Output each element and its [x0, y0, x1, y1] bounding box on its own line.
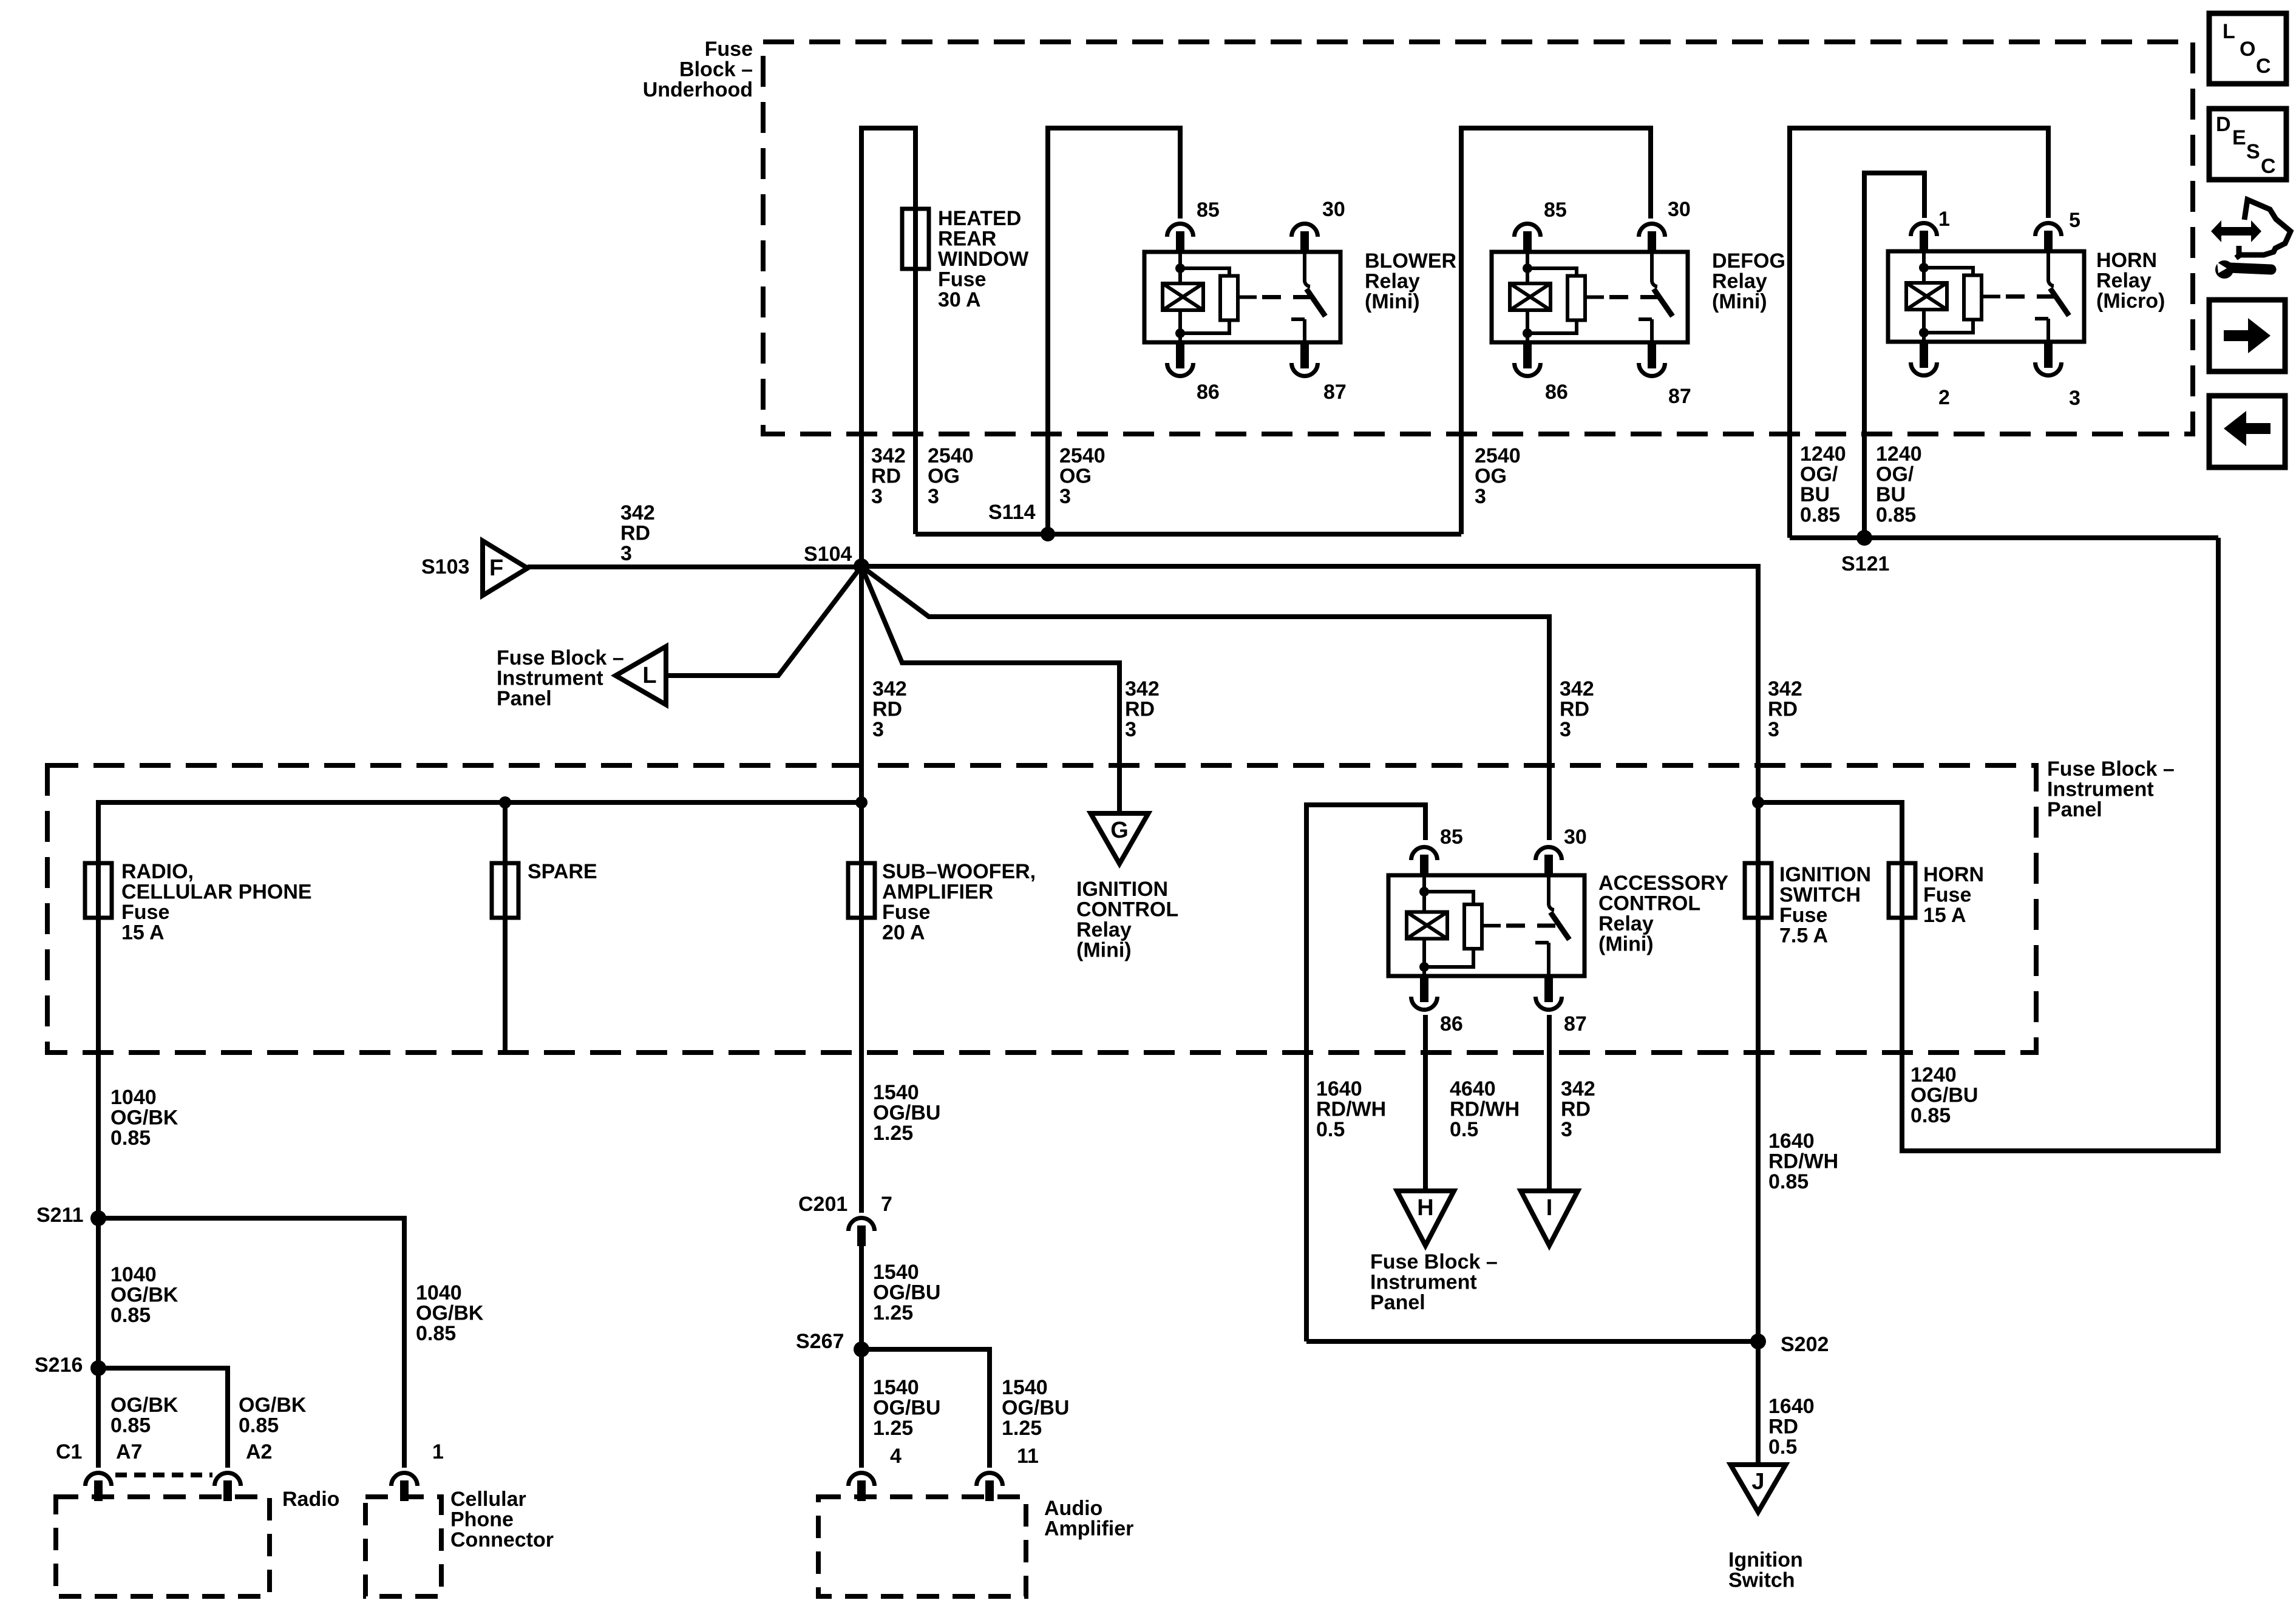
- svg-text:15 A: 15 A: [1923, 904, 1966, 927]
- wire: 1240 OG/BU from HORN fuse to S121: [1902, 538, 2218, 1151]
- connector clip A7: [86, 1473, 112, 1486]
- svg-text:RD: RD: [620, 522, 650, 545]
- svg-text:Relay: Relay: [1712, 270, 1767, 293]
- fuse: SPARE: [492, 862, 518, 919]
- connector triangle G: [1091, 813, 1149, 864]
- svg-text:S216: S216: [35, 1354, 83, 1377]
- dashed box: Cellular Phone Connector: [365, 1497, 441, 1596]
- svg-text:S103: S103: [421, 555, 469, 578]
- svg-text:BU: BU: [1876, 483, 1906, 506]
- svg-text:Relay: Relay: [1076, 918, 1132, 941]
- svg-text:3: 3: [1125, 718, 1136, 741]
- svg-text:1640: 1640: [1768, 1130, 1815, 1153]
- dashed box: Fuse Block - Underhood: [763, 42, 2193, 434]
- svg-text:86: 86: [1197, 381, 1220, 404]
- dashed box: Radio: [56, 1497, 270, 1596]
- svg-text:Relay: Relay: [1365, 270, 1420, 293]
- svg-text:0.85: 0.85: [239, 1414, 279, 1437]
- fuse: SUB-WOOFER AMPLIFIER 20 A: [848, 862, 875, 919]
- svg-text:Fuse: Fuse: [938, 268, 986, 291]
- relay: BLOWER Relay (Mini): [1144, 252, 1340, 342]
- connector clip 1 (cellular): [392, 1473, 418, 1486]
- svg-text:85: 85: [1197, 198, 1220, 222]
- wire: S104 diagonal to connector L (Fuse Block - Instrument Panel): [666, 566, 861, 676]
- svg-text:Radio: Radio: [282, 1488, 339, 1511]
- icon box arrow right: [2209, 300, 2285, 371]
- svg-text:A2: A2: [246, 1440, 272, 1463]
- svg-text:0.5: 0.5: [1316, 1118, 1345, 1141]
- connector clip A2: [215, 1473, 241, 1486]
- svg-text:1640: 1640: [1316, 1077, 1362, 1100]
- wire: S216 branch to radio pin A2: [98, 1368, 228, 1468]
- svg-text:Audio: Audio: [1044, 1497, 1102, 1520]
- svg-text:HORN: HORN: [1923, 863, 1984, 886]
- svg-text:Fuse: Fuse: [1779, 904, 1827, 927]
- fuse: IGNITION SWITCH 7.5 A: [1745, 862, 1771, 919]
- dashed link C1 between A7 and A2: [115, 1473, 212, 1477]
- svg-text:RD: RD: [872, 698, 902, 721]
- svg-text:1: 1: [1938, 208, 1950, 231]
- connector clip 4: [849, 1473, 875, 1486]
- svg-text:15 A: 15 A: [121, 921, 165, 944]
- svg-text:BU: BU: [1800, 483, 1830, 506]
- wire: 1240 OG/BU riser to HORN relay pin 1: [1864, 173, 1924, 538]
- wire: S202 splice line to acc-85 branch: [1306, 1339, 1758, 1344]
- relay: DEFOG Relay (Mini): [1492, 252, 1688, 342]
- svg-text:Panel: Panel: [497, 687, 552, 710]
- wire: 1540 OG/BU from SUB-WOOFER fuse to C201: [859, 918, 864, 1213]
- svg-text:DEFOG: DEFOG: [1712, 249, 1785, 273]
- svg-text:OG/: OG/: [1800, 463, 1838, 486]
- svg-text:Fuse: Fuse: [121, 901, 169, 924]
- svg-text:RD: RD: [1560, 698, 1589, 721]
- svg-text:OG: OG: [1059, 465, 1092, 488]
- svg-text:RD: RD: [1768, 698, 1798, 721]
- svg-text:3: 3: [1560, 718, 1571, 741]
- svg-text:1040: 1040: [110, 1086, 157, 1109]
- svg-text:RD/WH: RD/WH: [1768, 1150, 1838, 1173]
- wire: S121 splice line: [1790, 535, 2218, 540]
- svg-text:3: 3: [620, 542, 632, 565]
- svg-text:0.85: 0.85: [1911, 1104, 1951, 1127]
- connector clip 11: [977, 1473, 1003, 1486]
- svg-text:342: 342: [620, 501, 655, 524]
- svg-text:RADIO,: RADIO,: [121, 860, 194, 883]
- svg-text:0.85: 0.85: [1876, 504, 1916, 527]
- wire: ACCESSORY relay 86 to H: [1423, 1015, 1428, 1191]
- svg-text:Relay: Relay: [1598, 912, 1654, 935]
- wire: S211 to S216: [96, 1218, 101, 1368]
- svg-text:7: 7: [881, 1193, 892, 1216]
- svg-text:Ignition: Ignition: [1728, 1548, 1803, 1571]
- wire: S104 diagonal 342 RD to ACCESSORY CONTROL relay pin 30: [861, 566, 1549, 840]
- wire: SPARE fuse drop: [503, 802, 508, 863]
- dashed box: Audio Amplifier: [818, 1497, 1026, 1596]
- node: bus junction at SPARE fuse: [499, 796, 511, 808]
- svg-text:I: I: [1546, 1195, 1553, 1221]
- svg-text:C1: C1: [56, 1440, 82, 1463]
- svg-text:Panel: Panel: [2047, 798, 2102, 821]
- svg-text:0.85: 0.85: [1800, 504, 1840, 527]
- svg-text:5: 5: [2069, 209, 2080, 232]
- svg-text:1.25: 1.25: [873, 1122, 913, 1145]
- svg-text:RD: RD: [1561, 1098, 1591, 1121]
- svg-text:Fuse: Fuse: [1923, 884, 1971, 907]
- svg-text:1240: 1240: [1800, 442, 1846, 466]
- svg-text:20 A: 20 A: [882, 921, 925, 944]
- icon box DESC: [2209, 109, 2286, 180]
- wire: SPARE fuse lower stub: [503, 918, 508, 1053]
- svg-text:IGNITION: IGNITION: [1779, 863, 1871, 886]
- svg-text:1540: 1540: [873, 1081, 919, 1104]
- svg-text:3: 3: [1561, 1118, 1572, 1141]
- svg-text:(Mini): (Mini): [1076, 939, 1132, 962]
- HORN relay pin clips: [1911, 223, 1937, 237]
- svg-text:1.25: 1.25: [873, 1417, 913, 1440]
- svg-text:87: 87: [1323, 381, 1347, 404]
- connector triangle I: [1521, 1191, 1578, 1246]
- svg-text:342: 342: [871, 444, 906, 467]
- node S267: [854, 1341, 869, 1357]
- svg-text:WINDOW: WINDOW: [938, 248, 1029, 271]
- ACCESSORY CONTROL relay pin clips: [1411, 847, 1438, 861]
- wire: 342 RD feed from S104 up through fuse block to HEATED REAR WINDOW fuse: [861, 128, 915, 566]
- svg-text:OG/BK: OG/BK: [239, 1394, 307, 1417]
- svg-text:Phone: Phone: [450, 1508, 514, 1531]
- connector triangle L: [616, 646, 666, 705]
- svg-text:(Mini): (Mini): [1712, 290, 1767, 313]
- svg-text:1040: 1040: [110, 1263, 157, 1286]
- svg-text:S114: S114: [988, 501, 1036, 524]
- svg-text:342: 342: [1561, 1077, 1595, 1100]
- svg-text:Instrument: Instrument: [1370, 1271, 1477, 1294]
- svg-text:87: 87: [1564, 1012, 1587, 1036]
- svg-text:1.25: 1.25: [1002, 1417, 1042, 1440]
- svg-text:3: 3: [1475, 485, 1486, 508]
- svg-text:30 A: 30 A: [938, 288, 981, 311]
- wire: S104 right ray 342 RD to IGNITION SWITCH fuse: [861, 566, 1758, 863]
- svg-text:Fuse Block –: Fuse Block –: [497, 646, 624, 670]
- svg-text:342: 342: [872, 677, 907, 700]
- svg-text:85: 85: [1440, 825, 1463, 849]
- wire: IP fuse block bus to RADIO fuse: [98, 802, 861, 863]
- svg-text:CONTROL: CONTROL: [1598, 892, 1700, 915]
- svg-text:1040: 1040: [416, 1281, 462, 1304]
- relay: HORN Relay (Micro): [1888, 251, 2084, 342]
- svg-text:OG: OG: [928, 465, 960, 488]
- svg-text:85: 85: [1544, 198, 1567, 222]
- dashed box: Fuse Block - Instrument Panel: [47, 765, 2036, 1053]
- wire: 342 RD from connector F to S104: [528, 564, 861, 569]
- svg-text:S104: S104: [804, 543, 852, 566]
- svg-text:(Mini): (Mini): [1365, 290, 1420, 313]
- svg-text:0.85: 0.85: [110, 1414, 151, 1437]
- wire: S211 branch to Cellular Phone Connector pin 1: [98, 1218, 404, 1468]
- svg-text:C201: C201: [798, 1193, 847, 1216]
- svg-text:HORN: HORN: [2096, 249, 2157, 272]
- svg-text:Instrument: Instrument: [497, 667, 603, 690]
- node S211: [90, 1210, 106, 1226]
- svg-text:ACCESSORY: ACCESSORY: [1598, 872, 1728, 895]
- node S121: [1856, 530, 1872, 546]
- wire: SUB-WOOFER fuse drop: [859, 802, 864, 863]
- connector triangle F (from S103): [483, 541, 528, 595]
- svg-text:AMPLIFIER: AMPLIFIER: [882, 881, 993, 904]
- wire: 2540 OG riser to DEFOG relay pin 30: [1461, 128, 1651, 534]
- wire: IGNITION SWITCH fuse output 1640 RD/WH to S202: [1756, 918, 1761, 1341]
- svg-text:RD: RD: [1125, 698, 1155, 721]
- connector triangle J: [1731, 1465, 1786, 1512]
- svg-text:A7: A7: [116, 1440, 142, 1463]
- wire: 2540 OG riser to BLOWER relay pin 85: [1048, 128, 1180, 534]
- svg-text:OG/BU: OG/BU: [1002, 1397, 1069, 1420]
- svg-text:2: 2: [1938, 386, 1950, 409]
- svg-text:OG: OG: [1475, 465, 1507, 488]
- wire: 1640 RD from S202 to connector J: [1756, 1341, 1761, 1465]
- svg-text:3: 3: [1768, 718, 1779, 741]
- svg-text:(Mini): (Mini): [1598, 933, 1654, 956]
- svg-text:RD/WH: RD/WH: [1316, 1098, 1386, 1121]
- svg-text:Block –: Block –: [679, 58, 753, 81]
- svg-text:CONTROL: CONTROL: [1076, 898, 1178, 921]
- DEFOG relay pin clips: [1515, 223, 1541, 237]
- icon box arrow left: [2209, 396, 2285, 467]
- svg-text:E: E: [2232, 126, 2246, 149]
- svg-text:2540: 2540: [1475, 444, 1521, 467]
- svg-text:1540: 1540: [873, 1261, 919, 1284]
- svg-text:RD: RD: [871, 465, 901, 488]
- svg-text:Connector: Connector: [450, 1528, 554, 1551]
- fuse: RADIO CELLULAR PHONE 15 A: [85, 862, 112, 919]
- svg-text:OG/BK: OG/BK: [416, 1302, 484, 1325]
- wire: S267 branch to amplifier pin 11: [861, 1349, 990, 1468]
- svg-text:SPARE: SPARE: [528, 860, 597, 883]
- svg-text:SWITCH: SWITCH: [1779, 884, 1861, 907]
- svg-text:11: 11: [1017, 1445, 1039, 1468]
- svg-text:Fuse Block –: Fuse Block –: [1370, 1250, 1498, 1273]
- svg-text:0.85: 0.85: [110, 1127, 151, 1150]
- svg-text:1240: 1240: [1876, 442, 1922, 466]
- svg-text:CELLULAR PHONE: CELLULAR PHONE: [121, 881, 312, 904]
- wire: S104 diagonal 342 RD to IGNITION CONTROL relay G: [861, 566, 1119, 813]
- svg-text:0.5: 0.5: [1450, 1118, 1478, 1141]
- svg-text:3: 3: [2069, 387, 2080, 410]
- wire: 1240 OG/BU riser to HORN relay pin 5: [1790, 128, 2048, 538]
- node S114: [1041, 527, 1055, 541]
- svg-text:342: 342: [1125, 677, 1160, 700]
- BLOWER relay pin clips: [1167, 223, 1194, 237]
- svg-text:Underhood: Underhood: [643, 78, 753, 101]
- svg-text:D: D: [2216, 113, 2231, 136]
- connector clip C201 pin 7 (pass-through): [849, 1218, 875, 1231]
- svg-text:J: J: [1751, 1469, 1764, 1494]
- wire: ACCESSORY relay 87 to I: [1547, 1015, 1552, 1191]
- wire: 1540 OG/BU from C201 to S267: [859, 1242, 864, 1349]
- node S104: [854, 558, 869, 574]
- svg-text:87: 87: [1668, 385, 1691, 408]
- svg-text:1540: 1540: [873, 1376, 919, 1399]
- svg-text:C: C: [2256, 55, 2271, 78]
- svg-text:Switch: Switch: [1728, 1569, 1795, 1592]
- icon box LOC: [2209, 13, 2286, 84]
- svg-text:Amplifier: Amplifier: [1044, 1517, 1133, 1541]
- icon: vehicle outline with double arrow and wrench: [2211, 200, 2291, 279]
- svg-text:H: H: [1417, 1195, 1433, 1221]
- svg-text:Instrument: Instrument: [2047, 778, 2154, 801]
- svg-text:OG/BK: OG/BK: [110, 1394, 178, 1417]
- fuse: HEATED REAR WINDOW 30 A: [902, 208, 929, 270]
- svg-text:Panel: Panel: [1370, 1291, 1425, 1314]
- svg-text:OG/BK: OG/BK: [110, 1107, 178, 1130]
- svg-text:2540: 2540: [928, 444, 974, 467]
- svg-text:1: 1: [432, 1440, 444, 1463]
- svg-text:0.5: 0.5: [1768, 1436, 1797, 1459]
- svg-text:Cellular: Cellular: [450, 1488, 526, 1511]
- svg-text:4640: 4640: [1450, 1077, 1496, 1100]
- svg-text:0.85: 0.85: [1768, 1170, 1809, 1193]
- svg-text:Fuse: Fuse: [882, 901, 930, 924]
- svg-text:86: 86: [1440, 1012, 1463, 1036]
- svg-text:F: F: [489, 555, 503, 581]
- svg-text:OG/BU: OG/BU: [873, 1102, 940, 1125]
- wire: 1640 RD/WH feed to ACCESSORY relay 85 and down to S202: [1306, 805, 1425, 1341]
- svg-text:Relay: Relay: [2096, 269, 2152, 293]
- svg-text:G: G: [1110, 818, 1129, 843]
- svg-text:2540: 2540: [1059, 444, 1106, 467]
- svg-text:RD: RD: [1768, 1415, 1798, 1439]
- node S216: [90, 1360, 106, 1376]
- svg-text:1.25: 1.25: [873, 1301, 913, 1324]
- svg-text:3: 3: [928, 485, 939, 508]
- connector triangle H: [1397, 1191, 1454, 1246]
- node: branch dot at ignition switch fuse feed: [1752, 796, 1764, 808]
- svg-text:7.5 A: 7.5 A: [1779, 924, 1828, 947]
- svg-text:S202: S202: [1781, 1333, 1829, 1356]
- svg-text:HEATED: HEATED: [938, 207, 1021, 230]
- svg-text:OG/BU: OG/BU: [873, 1397, 940, 1420]
- svg-text:Fuse Block –: Fuse Block –: [2047, 758, 2175, 781]
- svg-text:S267: S267: [796, 1330, 844, 1353]
- svg-text:S121: S121: [1841, 552, 1889, 575]
- svg-text:1240: 1240: [1911, 1063, 1957, 1086]
- svg-text:BLOWER: BLOWER: [1365, 249, 1456, 273]
- svg-text:C: C: [2261, 155, 2276, 178]
- fuse: HORN 15 A: [1889, 862, 1915, 919]
- wire: S216 to radio pin A7: [96, 1368, 101, 1468]
- svg-text:1640: 1640: [1768, 1395, 1815, 1418]
- svg-text:IGNITION: IGNITION: [1076, 878, 1168, 901]
- svg-text:S: S: [2246, 140, 2260, 163]
- svg-text:OG/BU: OG/BU: [1911, 1084, 1978, 1107]
- svg-text:30: 30: [1564, 825, 1587, 849]
- svg-text:86: 86: [1545, 381, 1568, 404]
- node S202: [1750, 1334, 1766, 1349]
- svg-text:O: O: [2240, 38, 2255, 61]
- svg-text:342: 342: [1560, 677, 1594, 700]
- svg-text:RD/WH: RD/WH: [1450, 1098, 1520, 1121]
- svg-text:3: 3: [871, 485, 883, 508]
- svg-text:0.85: 0.85: [416, 1322, 456, 1345]
- node: bus junction at SUB-WOOFER fuse: [855, 796, 868, 808]
- svg-text:3: 3: [872, 718, 884, 741]
- wire: S104 down 342 RD to IP fuse block bus: [859, 566, 864, 802]
- wire: S114 splice line 2540 OG: [915, 532, 1461, 537]
- svg-text:(Micro): (Micro): [2096, 290, 2165, 313]
- svg-text:342: 342: [1768, 677, 1802, 700]
- svg-text:REAR: REAR: [938, 228, 996, 251]
- svg-text:Fuse: Fuse: [705, 38, 753, 61]
- wire: 1040 OG/BK from RADIO fuse to S211: [96, 918, 101, 1218]
- svg-text:1540: 1540: [1002, 1376, 1048, 1399]
- svg-text:SUB–WOOFER,: SUB–WOOFER,: [882, 860, 1036, 883]
- svg-text:30: 30: [1668, 198, 1691, 221]
- svg-text:0.85: 0.85: [110, 1304, 151, 1327]
- relay: ACCESSORY CONTROL Relay (Mini): [1388, 875, 1584, 976]
- svg-text:OG/BK: OG/BK: [110, 1284, 178, 1307]
- wire: branch to HORN fuse inside IP fuse block: [1758, 802, 1902, 863]
- svg-text:OG/: OG/: [1876, 463, 1914, 486]
- svg-text:30: 30: [1322, 198, 1345, 221]
- svg-text:4: 4: [890, 1445, 902, 1468]
- svg-text:L: L: [642, 663, 656, 688]
- svg-text:L: L: [2223, 20, 2235, 43]
- svg-text:3: 3: [1059, 485, 1071, 508]
- wire: S267 to amplifier pin 4: [859, 1349, 864, 1468]
- svg-text:OG/BU: OG/BU: [873, 1281, 940, 1304]
- svg-text:S211: S211: [36, 1204, 84, 1227]
